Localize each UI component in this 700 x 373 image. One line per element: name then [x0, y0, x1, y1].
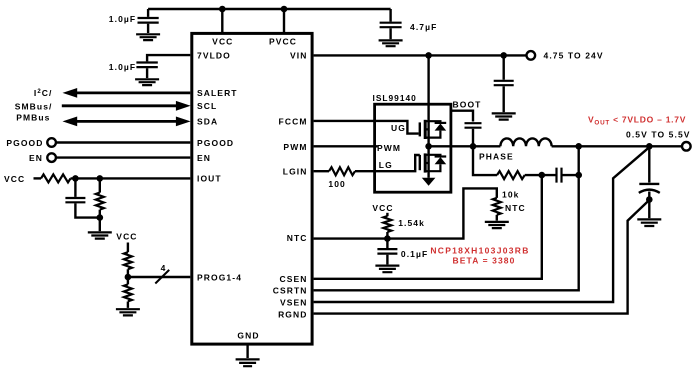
svg-text:BOOT: BOOT [453, 100, 482, 110]
svg-text:1.0µF: 1.0µF [109, 62, 136, 72]
ground [492, 113, 516, 119]
wire PVCC drop [283, 9, 285, 32]
svg-text:LG: LG [379, 160, 393, 170]
svg-text:SDA: SDA [197, 117, 218, 127]
wire CSEN [314, 175, 542, 279]
wire NTC [314, 188, 497, 238]
inductor L1 [500, 138, 551, 146]
node junction VCC [219, 6, 226, 13]
capacitor C9 output [639, 146, 660, 218]
node junction [575, 172, 582, 179]
wire VCC stub [127, 243, 129, 253]
node junction phase [425, 143, 432, 150]
capacitor C1 1.0uF [109, 9, 159, 33]
thermistor RT1 10k NTC [493, 198, 501, 215]
wire LG lead [355, 155, 420, 171]
svg-text:EN: EN [197, 153, 211, 163]
ground [375, 266, 399, 273]
node junction [500, 52, 507, 59]
wire IOUT [71, 177, 191, 179]
node junction [646, 196, 653, 203]
svg-text:RGND: RGND [278, 309, 307, 319]
terminal PGOOD [6, 138, 190, 148]
svg-text:I2C/: I2C/ [34, 88, 53, 98]
svg-text:PROG1-4: PROG1-4 [197, 272, 242, 282]
svg-text:ISL99140: ISL99140 [373, 93, 417, 103]
svg-text:4.75 TO 24V: 4.75 TO 24V [544, 51, 604, 61]
svg-text:VCC: VCC [212, 37, 233, 47]
svg-text:NCP18XH103J03RB: NCP18XH103J03RB [430, 245, 529, 255]
ground for C1 [136, 34, 160, 40]
wire SALERT arrow [34, 88, 190, 98]
transistor Q1 upper MOSFET [420, 55, 446, 146]
wire to CSEN node [525, 174, 557, 176]
svg-text:4.7µF: 4.7µF [410, 22, 437, 32]
svg-text:PWM: PWM [377, 143, 401, 153]
svg-text:PGOOD: PGOOD [6, 138, 43, 148]
wire cap to riser [562, 174, 579, 176]
ground for C3 [379, 40, 403, 46]
svg-text:VCC: VCC [372, 203, 393, 213]
svg-text:PVCC: PVCC [269, 37, 297, 47]
wire phase RC [473, 146, 497, 175]
capacitor C6 boot [465, 123, 482, 146]
wire VCC stub [386, 213, 388, 216]
wire to ground [496, 215, 498, 221]
resistor R7 1.54k [383, 216, 391, 232]
wire top rail [148, 8, 391, 10]
node junction [646, 143, 653, 150]
node junction [470, 143, 477, 150]
node junction [125, 274, 132, 281]
terminal EN [29, 153, 190, 163]
resistor R6 phase [497, 171, 525, 179]
svg-text:0.1µF: 0.1µF [401, 249, 428, 259]
wire 7VLDO [147, 55, 190, 61]
transistor Q2 lower MOSFET [420, 146, 446, 178]
node junction PVCC [281, 6, 288, 13]
svg-text:EN: EN [29, 153, 43, 163]
svg-text:GND: GND [237, 331, 259, 341]
power stage U2 ISL99140 box [375, 104, 451, 192]
svg-text:LGIN: LGIN [283, 167, 308, 177]
ground [485, 222, 509, 228]
capacitor C5 (IOUT) [65, 178, 99, 217]
svg-text:10k: 10k [502, 190, 519, 200]
capacitor C2 1.0uF [109, 62, 158, 78]
wire output [552, 145, 682, 147]
node junction [97, 214, 104, 221]
capacitor C8 0.1uF [377, 239, 428, 265]
controller U1 box [192, 33, 312, 344]
svg-text:BETA = 3380: BETA = 3380 [453, 256, 516, 266]
svg-text:4: 4 [161, 263, 167, 273]
wire phase out [429, 145, 501, 147]
wire BOOT [450, 111, 473, 122]
svg-text:SALERT: SALERT [197, 88, 238, 98]
wire to NTC line [386, 232, 388, 239]
capacitor C4 (input) [494, 55, 514, 112]
wire SDA arrow [16, 112, 190, 126]
resistor R5 100 [329, 167, 355, 175]
resistor R3 (PROG upper) [124, 252, 132, 269]
svg-text:VSEN: VSEN [280, 298, 308, 308]
capacitor C3 4.7uF [380, 9, 438, 39]
svg-text:IOUT: IOUT [197, 174, 222, 184]
svg-text:PGOOD: PGOOD [197, 138, 234, 148]
svg-text:SCL: SCL [197, 101, 217, 111]
resistor R2 (IOUT shunt) [96, 178, 104, 217]
ground [116, 309, 140, 315]
svg-text:0.5V TO 5.5V: 0.5V TO 5.5V [626, 130, 691, 140]
wire VCC drop [221, 9, 223, 32]
ground for C2 [135, 79, 159, 85]
svg-text:100: 100 [328, 179, 345, 189]
node junction [72, 175, 79, 182]
ground [236, 359, 260, 366]
node junction [97, 175, 104, 182]
wire PWM / phase through [314, 145, 378, 147]
wire to PROG pin [128, 269, 190, 277]
wire VCC to resistor [34, 177, 42, 179]
terminal VOUT [682, 142, 691, 151]
svg-text:PWM: PWM [283, 142, 307, 152]
wire FCCM to UG [314, 121, 419, 134]
svg-text:UG: UG [391, 123, 406, 133]
node junction [384, 235, 391, 242]
svg-text:PMBus: PMBus [16, 112, 50, 122]
svg-text:VCC: VCC [4, 174, 25, 184]
terminal VIN [527, 51, 536, 60]
svg-text:VOUT < 7VLDO – 1.7V: VOUT < 7VLDO – 1.7V [588, 115, 686, 127]
svg-text:NTC: NTC [505, 203, 526, 213]
wire SCL arrow [15, 101, 191, 112]
svg-text:PHASE: PHASE [479, 152, 514, 162]
svg-text:VCC: VCC [116, 232, 137, 242]
svg-text:SMBus/: SMBus/ [15, 102, 53, 112]
svg-text:FCCM: FCCM [279, 117, 308, 127]
bus slash PROG1-4 [155, 270, 169, 284]
resistor R1 (IOUT series) [41, 174, 71, 182]
svg-text:VIN: VIN [290, 50, 307, 60]
resistor R4 (PROG lower) [124, 277, 132, 308]
svg-text:1.54k: 1.54k [398, 218, 425, 228]
wire VSEN [314, 147, 650, 302]
node junction CSEN [539, 172, 546, 179]
svg-text:7VLDO: 7VLDO [197, 50, 231, 60]
ground [637, 219, 661, 226]
wire LGIN [314, 170, 329, 172]
svg-text:1.0µF: 1.0µF [109, 14, 136, 24]
wire CSRTN [314, 146, 579, 290]
svg-text:CSRTN: CSRTN [273, 286, 308, 296]
wire GND pin [246, 345, 248, 359]
svg-text:CSEN: CSEN [279, 274, 307, 284]
node junction [425, 52, 432, 59]
wire VIN rail [314, 54, 527, 56]
svg-text:NTC: NTC [287, 233, 308, 243]
ground (power stage) [422, 178, 436, 186]
wire RGND [314, 200, 650, 314]
ground [88, 232, 112, 238]
capacitor C7 (sense) [557, 168, 562, 183]
node junction [575, 143, 582, 150]
wire to ground [99, 218, 101, 232]
